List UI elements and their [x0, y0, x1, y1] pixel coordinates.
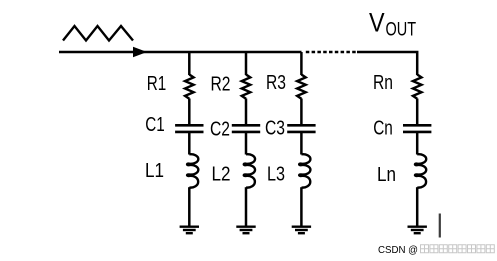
resistor R3 — [297, 75, 306, 99]
svg-text:C1: C1 — [145, 114, 165, 136]
top rail right segment with corner to branch n — [357, 52, 417, 75]
wire L1 to ground — [188, 187, 191, 226]
svg-text:Ln: Ln — [377, 164, 396, 186]
ground 2 — [236, 227, 255, 234]
wire L3 to ground — [300, 187, 303, 226]
capacitor Cn — [403, 125, 431, 132]
capacitor C3 — [287, 125, 315, 132]
wire R3 to C3 — [300, 99, 303, 125]
inductor L3 — [299, 154, 310, 187]
ground 3 — [292, 227, 311, 234]
svg-text:OUT: OUT — [386, 20, 417, 41]
svg-text:C2: C2 — [210, 119, 230, 141]
branch 3 top wire — [300, 52, 303, 75]
input wire (top rail left segment) — [59, 51, 302, 54]
dashed wire segment — [306, 51, 358, 54]
inductor Ln — [415, 154, 426, 187]
resistor R1 — [185, 75, 194, 99]
svg-text:R1: R1 — [147, 73, 167, 95]
svg-text:L1: L1 — [145, 160, 164, 182]
ground n — [408, 227, 427, 234]
resistor Rn — [413, 75, 422, 99]
svg-text:L3: L3 — [267, 164, 285, 186]
arrowhead on input wire — [133, 47, 147, 57]
noise source zigzag waveform — [63, 26, 133, 41]
svg-text:C3: C3 — [265, 118, 285, 140]
cursor artifact mark — [439, 214, 441, 238]
inductor L1 — [187, 154, 198, 187]
wire L2 to ground — [245, 187, 248, 226]
wire Cn to Ln — [416, 133, 419, 155]
branch 1 top wire — [188, 52, 191, 75]
wire C2 to L2 — [245, 133, 248, 155]
branch 2 top wire — [245, 52, 248, 75]
node VOUT label — [369, 8, 416, 41]
svg-text:R3: R3 — [266, 72, 286, 94]
wire Ln to ground — [416, 187, 419, 226]
svg-text:L2: L2 — [212, 164, 231, 186]
wire C1 to L1 — [188, 133, 191, 155]
capacitor C1 — [175, 125, 203, 132]
watermark CSDN — [378, 244, 494, 256]
svg-text:Rn: Rn — [373, 72, 393, 94]
ground 1 — [180, 227, 199, 234]
svg-text:R2: R2 — [211, 74, 231, 96]
resistor R2 — [242, 75, 251, 99]
capacitor C2 — [232, 125, 260, 132]
svg-text:Cn: Cn — [373, 118, 393, 140]
wire R1 to C1 — [188, 99, 191, 125]
wire C3 to L3 — [300, 133, 303, 155]
wire R2 to C2 — [245, 99, 248, 125]
svg-text:CSDN @: CSDN @ — [378, 244, 418, 256]
svg-text:V: V — [369, 8, 385, 38]
inductor L2 — [244, 154, 255, 187]
wire Rn to Cn — [416, 99, 419, 125]
